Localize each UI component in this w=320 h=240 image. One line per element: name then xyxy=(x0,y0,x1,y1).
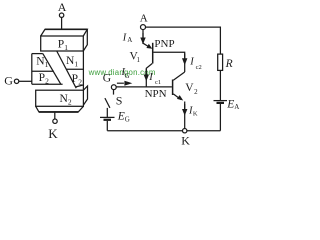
svg-text:G: G xyxy=(103,73,111,85)
svg-text:2: 2 xyxy=(78,77,82,86)
svg-text:2: 2 xyxy=(68,97,72,106)
svg-text:A: A xyxy=(58,0,67,14)
svg-text:I: I xyxy=(148,72,153,83)
svg-text:G: G xyxy=(4,74,13,88)
svg-text:P: P xyxy=(72,73,78,85)
svg-text:1: 1 xyxy=(45,60,49,69)
svg-text:S: S xyxy=(116,94,123,108)
svg-text:A: A xyxy=(127,36,132,44)
svg-text:c2: c2 xyxy=(196,64,202,71)
svg-text:1: 1 xyxy=(74,59,78,68)
svg-text:NPN: NPN xyxy=(145,88,167,100)
svg-text:1: 1 xyxy=(64,43,68,52)
svg-text:E: E xyxy=(226,98,234,110)
svg-text:K: K xyxy=(48,126,58,141)
svg-text:P: P xyxy=(58,38,64,50)
svg-text:P: P xyxy=(39,72,45,84)
svg-text:2: 2 xyxy=(45,77,49,86)
svg-text:K: K xyxy=(181,134,190,147)
svg-text:A: A xyxy=(140,12,148,24)
svg-text:K: K xyxy=(193,110,198,117)
svg-text:V: V xyxy=(185,82,194,94)
svg-text:2: 2 xyxy=(194,88,198,96)
svg-text:c1: c1 xyxy=(155,79,161,86)
svg-text:E: E xyxy=(117,110,125,122)
svg-text:I: I xyxy=(189,57,194,68)
svg-text:I: I xyxy=(122,33,127,44)
svg-text:A: A xyxy=(234,103,239,111)
svg-text:R: R xyxy=(225,58,233,70)
svg-text:1: 1 xyxy=(137,56,141,64)
svg-text:PNP: PNP xyxy=(154,38,174,50)
svg-text:G: G xyxy=(125,115,130,123)
svg-text:G: G xyxy=(125,72,130,80)
